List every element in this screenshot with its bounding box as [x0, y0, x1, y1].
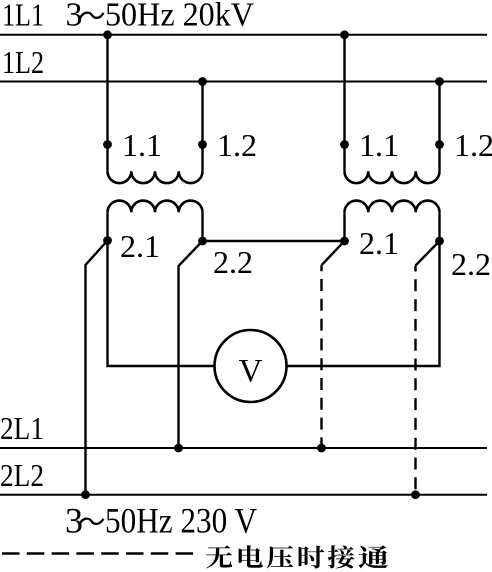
- wire 2.2 T2 down to voltmeter right: [287, 241, 440, 366]
- svg-text:1L1: 1L1: [2, 0, 44, 33]
- svg-text:50Hz 230 V: 50Hz 230 V: [105, 501, 257, 541]
- svg-text:2.2: 2.2: [451, 246, 491, 282]
- wire switch branch from 2.1 T2 (solid diagonal): [322, 241, 345, 265]
- junction on 2L1 from T1 2.2 branch: [174, 444, 183, 453]
- legend char 通: [359, 545, 389, 568]
- wire T1 primary lead 1.1: [106, 35, 108, 172]
- svg-text:1.2: 1.2: [217, 127, 257, 163]
- legend char 电: [239, 545, 263, 568]
- legend text: connected when no voltage: [206, 545, 388, 568]
- junction on 1L2: [435, 77, 444, 86]
- junction on 2L2 from T2 2.2 branch: [411, 490, 420, 499]
- svg-text:2.1: 2.1: [120, 228, 160, 264]
- terminal dot 1.2 T1: [198, 140, 207, 149]
- wire T1 secondary lead 2.2: [201, 212, 203, 241]
- legend char 压: [267, 546, 293, 569]
- wire dashed vertical from 2.1 T2: [320, 265, 322, 448]
- junction on 1L1: [103, 30, 112, 39]
- terminal dot 2.2 T1: [198, 237, 207, 246]
- T1 primary winding: [108, 171, 203, 183]
- svg-text:2.1: 2.1: [359, 225, 399, 261]
- svg-text:2.2: 2.2: [213, 244, 253, 280]
- svg-text:2L1: 2L1: [0, 410, 44, 446]
- wire T2 secondary lead 2.2: [438, 212, 440, 241]
- legend char 时: [299, 546, 325, 569]
- wire switch branch from 2.1 T1: [86, 241, 108, 495]
- svg-text:1.1: 1.1: [122, 127, 162, 163]
- legend dashed line: [2, 552, 193, 555]
- wire T1 primary lead 1.2: [201, 82, 203, 172]
- terminal dot 2.1 T2: [340, 237, 349, 246]
- bus 1L1: [0, 34, 487, 36]
- svg-text:1.2: 1.2: [454, 127, 492, 163]
- wire switch branch from 2.2 T2 (solid diagonal): [416, 241, 440, 266]
- legend char 接: [328, 545, 355, 568]
- terminal dot 2.2 T2: [435, 237, 444, 246]
- junction on 1L2: [198, 77, 207, 86]
- wire T1 secondary lead 2.1: [106, 212, 108, 240]
- voltmeter V: [215, 330, 287, 402]
- terminal dot 1.1 T2: [340, 140, 349, 149]
- bus 2L2: [0, 494, 487, 496]
- wire switch branch from 2.2 T1: [179, 241, 203, 448]
- svg-text:1.1: 1.1: [359, 127, 399, 163]
- T2 primary winding: [345, 171, 440, 183]
- wire dashed vertical from 2.2 T2: [414, 266, 416, 495]
- T2 secondary winding: [345, 201, 440, 213]
- svg-text:1L2: 1L2: [2, 44, 44, 80]
- wire 2.1 T1 down to voltmeter left: [108, 241, 215, 367]
- bus 2L1: [0, 447, 487, 449]
- T1 secondary winding: [108, 201, 203, 213]
- terminal dot 1.1 T1: [103, 140, 112, 149]
- wire T2 primary lead 1.2: [438, 82, 440, 172]
- junction on 1L1: [340, 30, 349, 39]
- svg-text:V: V: [239, 354, 263, 390]
- svg-text:3: 3: [65, 501, 83, 541]
- bus 1L2: [0, 81, 487, 83]
- junction on 2L2 from T1 2.1 branch: [81, 490, 90, 499]
- junction on 2L1 from T2 2.1 branch: [317, 444, 326, 453]
- svg-text:2L2: 2L2: [0, 457, 44, 493]
- wire T2 primary lead 1.1: [343, 35, 345, 172]
- wire 2.2 T1 to 2.1 T2: [203, 240, 345, 242]
- terminal dot 1.2 T2: [435, 140, 444, 149]
- legend char 无: [206, 545, 232, 568]
- wire T2 secondary lead 2.1: [343, 212, 345, 241]
- terminal dot 2.1 T1: [103, 236, 112, 245]
- svg-text:50Hz 20kV: 50Hz 20kV: [105, 0, 254, 34]
